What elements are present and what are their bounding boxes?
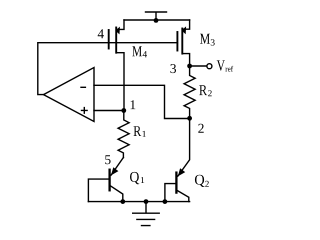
label R1-R <box>134 126 142 136</box>
label Q1-Q <box>130 172 139 184</box>
resistor R2 <box>184 66 195 119</box>
label R2-R <box>199 85 207 95</box>
base bar Q1 <box>108 170 110 191</box>
channel bar M4 <box>115 28 117 53</box>
node 3 <box>187 64 192 69</box>
label node5 <box>105 155 110 164</box>
label node3 <box>170 64 176 73</box>
label R2-sub2 <box>208 90 212 96</box>
transistor M3 <box>177 20 189 66</box>
label M4-sub4 <box>143 51 147 57</box>
label Q2-Q <box>195 175 205 187</box>
label node2 <box>198 124 203 133</box>
wire op-amp output feedback to gates (node 4) <box>38 43 178 95</box>
gate bar M3 <box>176 32 178 51</box>
drain lead M3 <box>182 54 189 66</box>
label node1 <box>131 100 136 109</box>
label Q2-sub2 <box>205 181 209 187</box>
label M4-M <box>132 46 142 56</box>
drain lead M4 <box>116 53 124 111</box>
label Vref-V <box>217 60 225 70</box>
label Vref-ref <box>225 66 233 72</box>
wire R1 to Q1 emitter <box>111 158 123 176</box>
source lead M3 <box>182 20 189 29</box>
transistor Q1 <box>88 170 122 202</box>
base lead Q1 <box>88 179 109 202</box>
transistor M4 <box>109 20 124 111</box>
ground <box>133 202 160 226</box>
arrow M4 source <box>115 27 120 35</box>
node 2 <box>187 116 192 121</box>
node 1 <box>121 108 126 113</box>
channel bar M3 <box>181 29 183 54</box>
gate bar M4 <box>108 30 110 49</box>
source lead M4 <box>116 20 124 29</box>
arrow Q2 emitter <box>178 168 185 176</box>
base lead Q2 <box>165 184 177 202</box>
wire node 2 to Q2 emitter <box>178 119 190 177</box>
label Q1-sub1 <box>141 177 144 183</box>
terminal Vref open circle <box>207 64 212 69</box>
label M3-sub3 <box>211 39 215 45</box>
collector lead Q1 <box>110 186 123 202</box>
resistor R1 <box>118 111 129 158</box>
node Q1 collector junction <box>120 199 125 204</box>
wire top rail <box>124 19 190 21</box>
label R1-sub1 <box>143 131 146 137</box>
bottom rail <box>88 201 189 203</box>
node ground junction <box>144 199 149 204</box>
wire op-amp minus input to node 2 <box>94 85 190 118</box>
plus sign <box>82 108 88 114</box>
label M3-M <box>200 34 210 44</box>
op-amp U1 <box>44 68 95 122</box>
minus sign <box>81 86 85 88</box>
wire to Vref terminal <box>190 65 207 67</box>
collector lead Q2 <box>177 190 189 201</box>
arrow M3 source <box>182 26 187 34</box>
node Q2 base junction <box>163 199 168 204</box>
base bar Q2 <box>175 173 177 193</box>
node supply junction <box>154 18 159 23</box>
label node4 <box>98 29 104 38</box>
supply bar <box>146 12 167 20</box>
wire op-amp plus input to node 1 <box>94 110 124 112</box>
transistor Q2 <box>165 173 189 202</box>
arrow Q1 emitter <box>111 167 118 175</box>
